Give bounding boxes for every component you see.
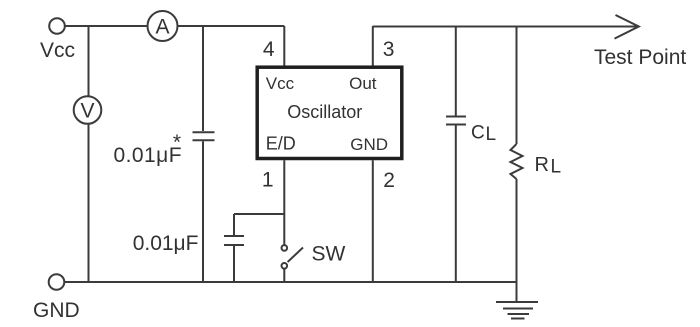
svg-text:V: V xyxy=(80,100,94,123)
svg-text:*: * xyxy=(173,131,181,154)
svg-text:0.01μF: 0.01μF xyxy=(133,232,199,255)
svg-text:Test Point: Test Point xyxy=(594,46,686,69)
svg-text:E/D: E/D xyxy=(266,134,296,154)
svg-text:RL: RL xyxy=(535,154,562,178)
svg-text:4: 4 xyxy=(263,38,275,61)
svg-text:A: A xyxy=(155,16,169,39)
svg-text:0.01μF: 0.01μF xyxy=(114,144,183,167)
svg-text:Vcc: Vcc xyxy=(266,74,295,93)
svg-text:Out: Out xyxy=(349,74,377,93)
svg-text:CL: CL xyxy=(471,123,496,146)
svg-text:GND: GND xyxy=(33,299,80,322)
svg-text:1: 1 xyxy=(262,169,274,192)
svg-text:Vcc: Vcc xyxy=(40,39,75,62)
svg-text:GND: GND xyxy=(350,135,388,154)
svg-text:SW: SW xyxy=(312,243,346,266)
svg-text:2: 2 xyxy=(383,169,395,192)
svg-text:3: 3 xyxy=(383,38,395,61)
svg-text:Oscillator: Oscillator xyxy=(287,102,362,122)
